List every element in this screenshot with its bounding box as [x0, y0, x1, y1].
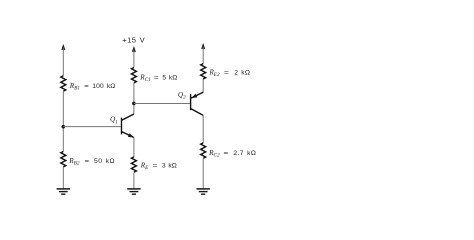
transistor Q2: [191, 92, 204, 115]
svg-text:=: =: [154, 74, 159, 81]
supply arrow left (+15V rail): [61, 44, 65, 50]
resistor RC2: [201, 143, 206, 158]
wire: Q1 emitter to RE top: [133, 137, 135, 157]
wire: RB1 bottom to RB2 top (through node): [62, 91, 64, 151]
svg-text:=: =: [84, 83, 89, 90]
svg-text:+15 V: +15 V: [122, 36, 145, 45]
svg-text:50 kΩ: 50 kΩ: [94, 158, 115, 165]
ground (middle): [127, 189, 140, 194]
wire: +15V arrow to RC1 top: [133, 50, 135, 68]
svg-text:=: =: [153, 162, 158, 169]
wire: RC2 bottom to ground: [202, 158, 204, 188]
resistor RB1: [61, 76, 66, 91]
wire: RB2 bottom to ground: [62, 167, 64, 189]
svg-text:2.7 kΩ: 2.7 kΩ: [233, 150, 256, 157]
resistor RE: [131, 157, 136, 172]
wire: RE bottom to ground: [133, 172, 135, 188]
wire: base wire from divider to Q1 base: [63, 126, 120, 128]
supply arrow middle (+15V): [132, 46, 136, 52]
node: Q1 collector / Q2 base: [132, 102, 136, 106]
svg-text:3 kΩ: 3 kΩ: [162, 162, 177, 169]
wire: RE2 bottom to Q2 emitter: [202, 79, 204, 92]
ground (right): [197, 189, 210, 194]
supply arrow right (+15V rail): [201, 43, 205, 49]
wire: Q2 collector to RC2 top: [202, 115, 204, 143]
transistor Q1: [122, 114, 134, 138]
svg-text:2 kΩ: 2 kΩ: [234, 70, 250, 77]
resistor RE2: [201, 64, 206, 79]
svg-text:=: =: [224, 70, 229, 77]
svg-text:=: =: [224, 150, 229, 157]
node: base divider junction: [62, 125, 66, 129]
wire: node to Q2 base: [134, 103, 190, 105]
resistor RB2: [61, 152, 66, 167]
wire: RC1 bottom to Q1 collector (through node): [133, 83, 135, 114]
svg-text:5 kΩ: 5 kΩ: [162, 74, 177, 81]
wire: right rail arrow to RE2 top: [202, 47, 204, 64]
svg-text:100 kΩ: 100 kΩ: [92, 83, 115, 90]
wire: left rail arrow to RB1 top: [62, 48, 64, 76]
svg-text:=: =: [85, 158, 90, 165]
resistor RC1: [131, 68, 136, 83]
ground (left): [57, 189, 70, 194]
